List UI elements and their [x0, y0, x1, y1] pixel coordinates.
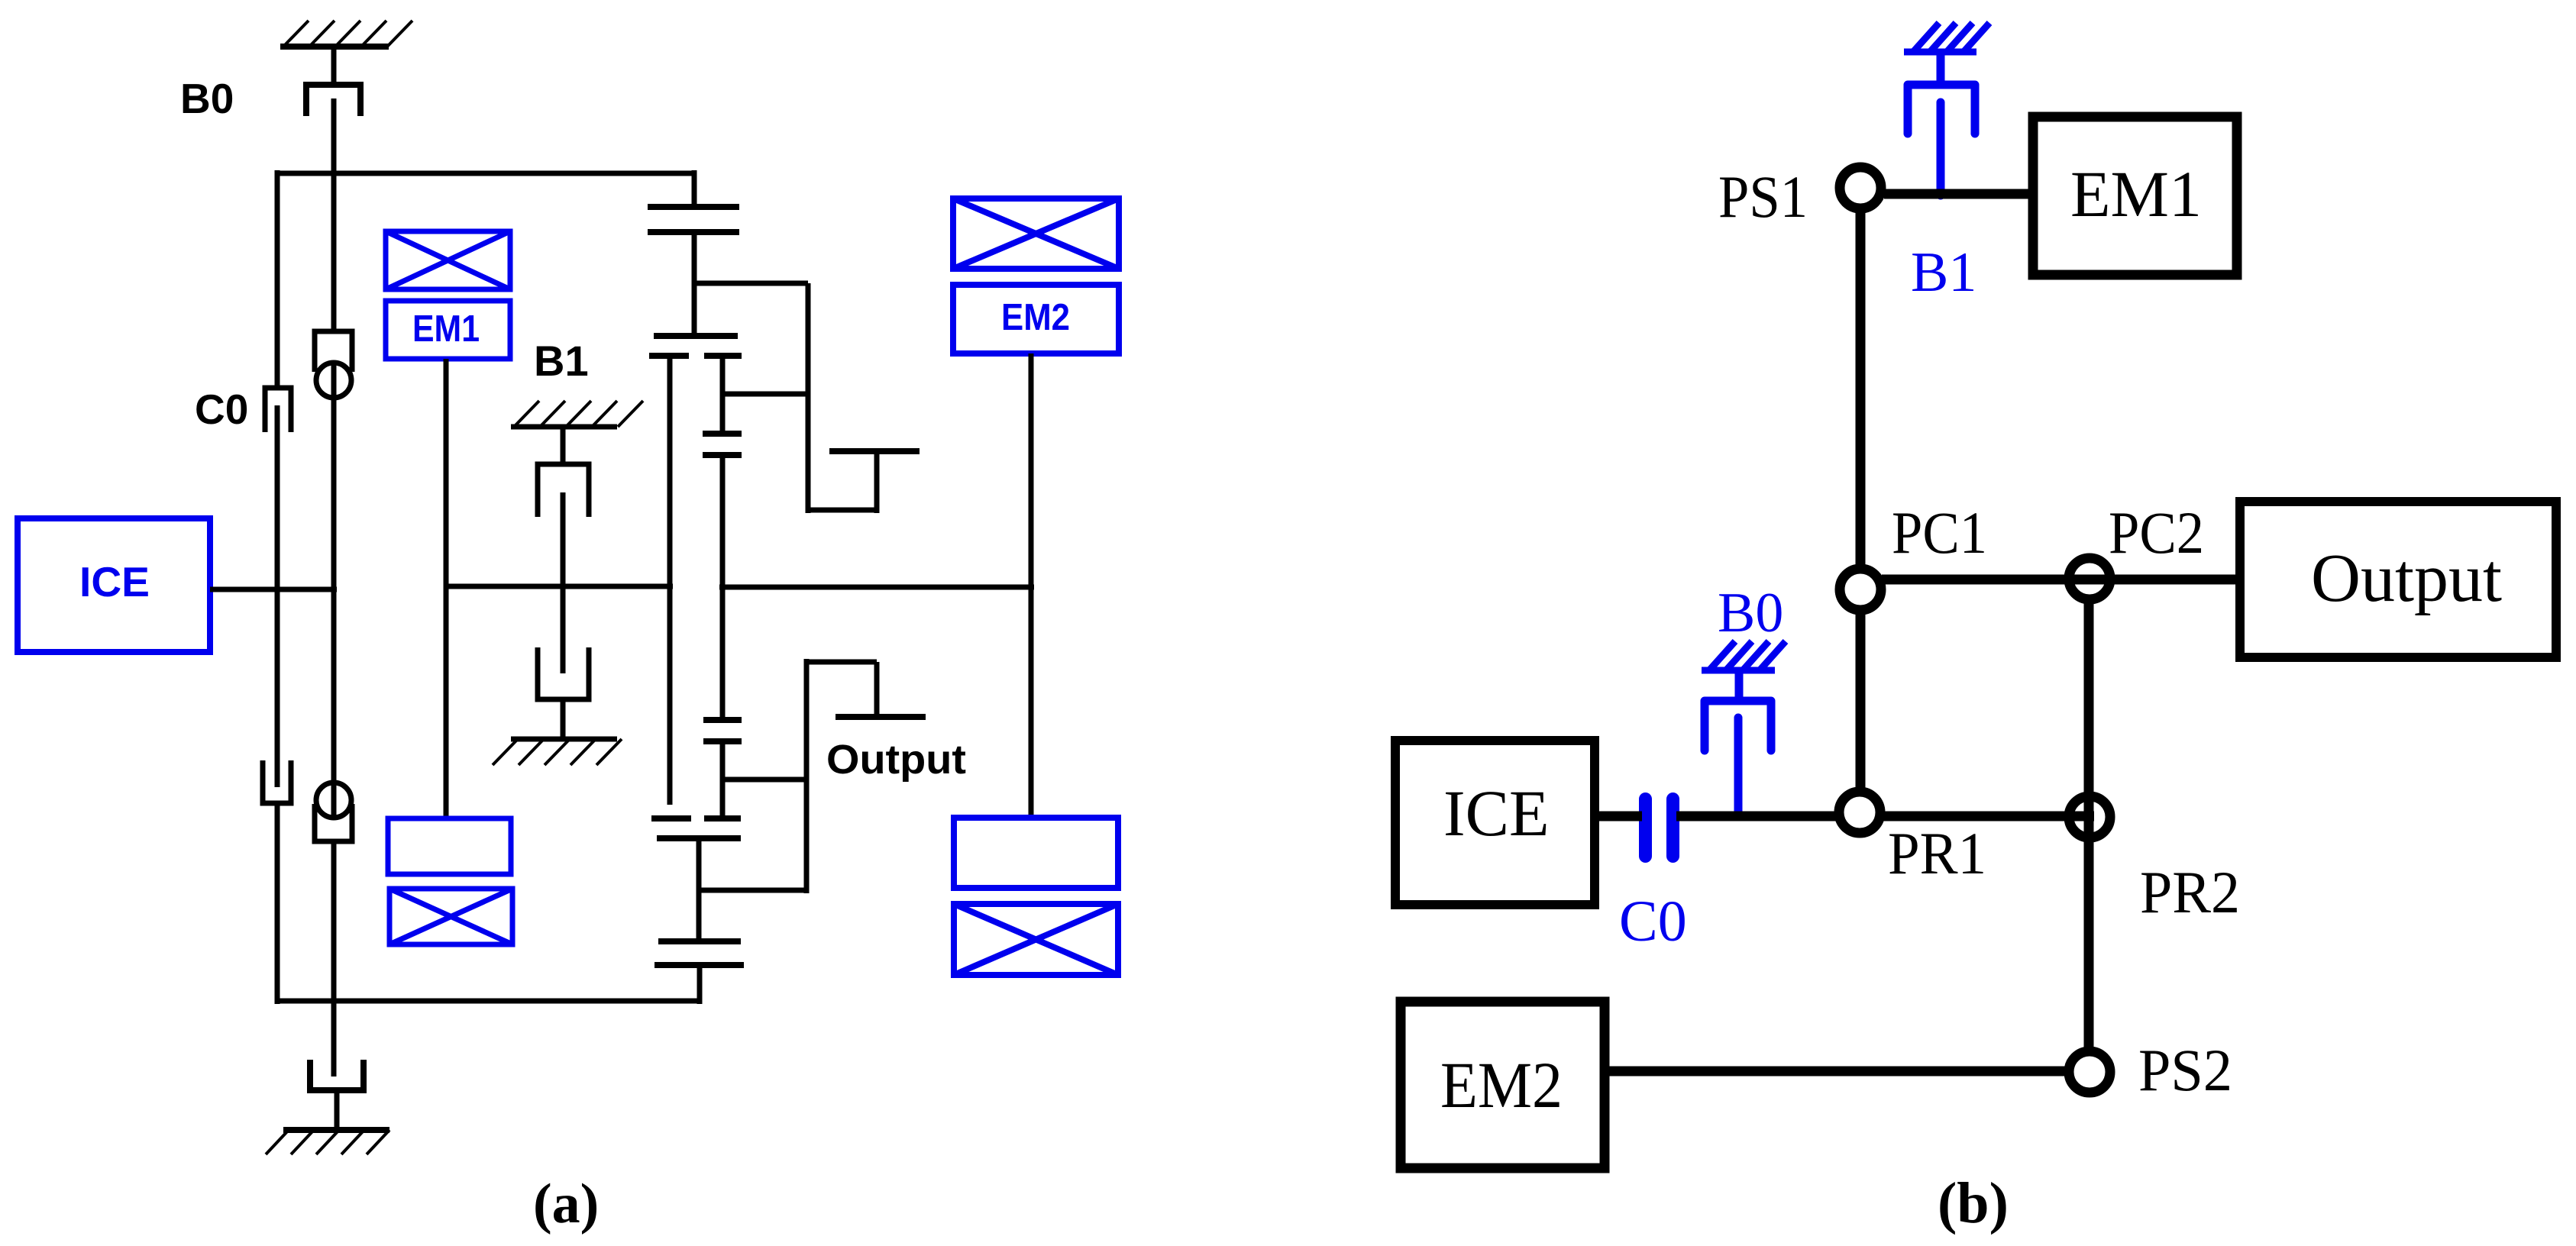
carrier frame top rail — [277, 171, 694, 176]
svg-text:PR1: PR1 — [1888, 820, 1986, 886]
clutch C0 plate 1 (blue) — [1639, 792, 1652, 863]
block EM1 (b) — [2033, 117, 2237, 275]
node PR1 — [1839, 792, 1880, 833]
svg-text:EM1: EM1 — [2070, 157, 2202, 231]
wire: tap to clutch drum (upper) — [694, 281, 808, 286]
wire: sun shaft upper — [720, 356, 726, 434]
bottom brake cup — [310, 1060, 364, 1090]
svg-text:EM1: EM1 — [412, 308, 480, 350]
wire: main shaft axis segment 1 (ICE to B0 shaft) — [210, 587, 337, 592]
gear mesh bar (ring R1 lower flank) — [648, 229, 739, 235]
gear mesh bar (sun S2 flank b) — [703, 738, 742, 744]
gear mesh bar (sun S1 top-right) — [704, 353, 742, 359]
gear mesh bar (pinion P1 top-left) — [649, 353, 689, 359]
brake B1 lower cup — [538, 647, 589, 699]
clutch C0 lower cup — [263, 760, 291, 803]
ground (bottom) — [266, 1130, 389, 1154]
svg-text:EM2: EM2 — [1440, 1048, 1563, 1122]
wire: PC1 to PC2 to Output — [1882, 575, 2245, 585]
wire: B0 shaft through main axis — [331, 364, 337, 818]
block EM2 (b) — [1401, 1002, 1605, 1168]
svg-text:EM2: EM2 — [1001, 297, 1070, 338]
wire: main shaft axis segment 2 (EM1 shaft to pinion shaft) — [445, 584, 673, 589]
wire: ring gear R2 shaft — [697, 838, 702, 942]
wire: ring gear R1 shaft — [692, 232, 697, 337]
motor EM2 winding (crossed box) — [953, 199, 1119, 269]
motor EM2 lower frame box — [954, 818, 1118, 888]
motor EM1 label box — [386, 301, 510, 359]
node PC2 — [2069, 558, 2110, 599]
svg-text:ICE: ICE — [1443, 776, 1550, 850]
block ICE — [18, 518, 210, 652]
ground (top, for brake B0) — [280, 21, 412, 47]
node PR2 — [2069, 796, 2110, 838]
svg-text:C0: C0 — [1619, 889, 1687, 954]
wire: clutch C0 inner shaft — [275, 405, 280, 787]
svg-text:Output: Output — [2311, 541, 2502, 616]
wire: clutch C0 plate to PR1 — [1676, 812, 1841, 822]
svg-text:PS1: PS1 — [1718, 163, 1808, 230]
svg-text:PR2: PR2 — [2140, 859, 2240, 925]
brake B0 (outer bracket) — [306, 85, 360, 116]
svg-text:PS2: PS2 — [2138, 1037, 2232, 1103]
wire: PS1 to EM1 — [1884, 189, 2038, 199]
wire: sun S2 shaft lower — [720, 741, 726, 819]
wire: ground stem to brake B0 — [331, 47, 337, 83]
wire: PS1 to PC1 — [1856, 206, 1866, 569]
carrier frame bottom rail — [277, 999, 700, 1004]
wire: clutch drum riser (upper) — [874, 451, 880, 513]
wire: B0 inner shaft (blue) — [1734, 718, 1743, 817]
one-way clutch F2 (housing box) — [315, 804, 352, 841]
wire: frame right drop — [692, 170, 697, 208]
wire: EM2 rotor shaft — [1029, 353, 1034, 818]
brake B1 (outer bracket) — [538, 464, 589, 517]
wire: ICE to clutch C0 plate — [1595, 812, 1642, 822]
ground (blue, for brake B1) — [1904, 23, 1989, 52]
gear mesh bar (sun bottom-right) — [704, 815, 741, 822]
gear mesh bar (clutch flange upper) — [829, 448, 920, 454]
one-way clutch F2 (roller circle) — [316, 783, 351, 818]
node PS1 — [1840, 167, 1881, 208]
motor EM2 lower winding (crossed box) — [954, 904, 1118, 975]
wire: brake B0 inner shaft down to one-way clutch F1 — [331, 98, 337, 331]
one-way clutch F1 (roller circle) — [316, 363, 351, 398]
block Output (b) — [2240, 502, 2556, 657]
svg-text:B1: B1 — [534, 337, 589, 385]
gear mesh bar (sun S2 flank a) — [703, 717, 742, 723]
wire: tap to clutch drum (mid) — [722, 392, 808, 397]
wire: EM2 to PS2 — [1605, 1067, 2067, 1077]
svg-text:Output: Output — [826, 737, 966, 783]
svg-text:ICE: ICE — [79, 558, 150, 605]
ground (for brake B1) — [511, 401, 643, 427]
motor EM1 lower frame box — [388, 818, 511, 874]
brake B1 (blue bracket) — [1908, 85, 1975, 134]
wire: output drum riser — [874, 662, 880, 720]
carrier frame left rail (upper) — [275, 170, 280, 386]
svg-text:C0: C0 — [195, 386, 248, 433]
wire: B1 ground stem — [561, 427, 566, 464]
wire: sun shaft through axis — [720, 455, 726, 721]
wire: tap to output drum (lower) — [699, 888, 809, 893]
motor EM2 label box — [953, 285, 1119, 353]
wire: tap to output drum — [722, 777, 806, 783]
wire: EM1 rotor shaft — [444, 359, 449, 819]
wire: PC1 to PR1 — [1856, 609, 1866, 794]
svg-text:(b): (b) — [1938, 1171, 2009, 1235]
node PS2 — [2069, 1051, 2110, 1093]
gear mesh bar (sun S1 flank a) — [703, 431, 742, 437]
wire: output drum vertical — [804, 659, 810, 893]
wire: PR1 to PR2 — [1879, 812, 2094, 822]
ground (blue, for brake B0) — [1702, 641, 1786, 670]
block ICE (b) — [1395, 741, 1595, 905]
gear mesh bar (sun S1 flank b) — [703, 452, 742, 458]
wire: left rail lower segment — [275, 803, 280, 1004]
wire: frame right rise — [697, 965, 703, 1004]
node PC1 — [1840, 569, 1881, 610]
clutch C0 (outer bracket) — [265, 388, 291, 432]
svg-text:B1: B1 — [1911, 241, 1976, 304]
wire: B1 lower stem — [561, 699, 566, 739]
wire: clutch drum bottom (upper) — [808, 508, 877, 513]
gear mesh bar (carrier bottom) — [657, 835, 741, 841]
svg-text:PC1: PC1 — [1892, 499, 1987, 566]
one-way clutch F1 (housing box) — [315, 331, 352, 372]
wire: bottom brake stem — [335, 1090, 340, 1130]
gear mesh bar (ring R1 upper flank) — [648, 204, 739, 210]
wire: PC2 to PR2 to PS2 — [2084, 599, 2094, 1054]
wire: main shaft axis segment 3 (sun shaft to EM2 shaft) — [719, 585, 1034, 590]
wire: B1 inner shaft (blue) — [1937, 102, 1945, 195]
brake B0 (blue bracket) — [1705, 701, 1771, 751]
svg-text:(a): (a) — [533, 1173, 599, 1235]
gear mesh bar (carrier top) — [654, 333, 738, 339]
wire: brake B1 inner shaft — [561, 492, 566, 673]
ground (below brake B1) — [493, 739, 622, 765]
gear mesh bar (pinion bottom-left) — [651, 815, 691, 822]
gear mesh bar (ring R2 upper flank) — [658, 938, 741, 944]
wire: clutch drum vertical (upper) — [806, 283, 811, 513]
clutch C0 plate 2 (blue) — [1666, 792, 1679, 863]
wire: B0 shaft lower segment to bottom brake — [331, 841, 337, 1077]
svg-text:B0: B0 — [1718, 582, 1783, 644]
wire: B0 ground stem (blue) — [1735, 670, 1744, 701]
gear mesh bar (output flange) — [836, 714, 926, 720]
wire: long pinion shaft — [667, 356, 673, 805]
motor EM1 winding (crossed box) — [386, 231, 510, 289]
motor EM1 lower winding (crossed box) — [389, 889, 512, 944]
svg-text:B0: B0 — [180, 75, 234, 122]
svg-text:PC2: PC2 — [2109, 499, 2204, 566]
wire: output drum top — [806, 660, 877, 665]
wire: B1 ground stem (blue) — [1937, 52, 1945, 82]
gear mesh bar (ring R2 lower flank) — [655, 962, 744, 968]
